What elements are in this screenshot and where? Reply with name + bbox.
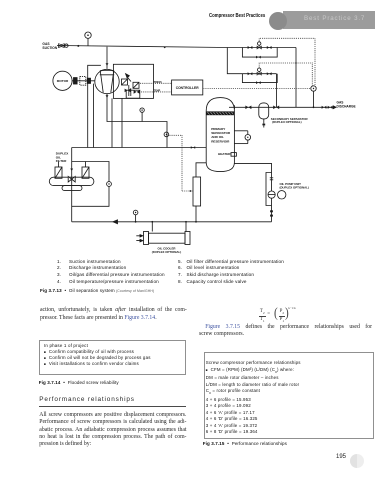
svg-text:(DUPLEX OPTIONAL): (DUPLEX OPTIONAL)	[152, 250, 181, 254]
svg-text:MOTOR: MOTOR	[57, 79, 69, 83]
svg-text:PRESS: PRESS	[154, 81, 163, 84]
svg-text:(DUPLEX OPTIONAL): (DUPLEX OPTIONAL)	[280, 186, 309, 190]
svg-text:TEMP: TEMP	[154, 90, 161, 93]
svg-text:FILTER: FILTER	[56, 159, 67, 163]
svg-text:SUCTION: SUCTION	[42, 46, 57, 50]
svg-text:DISCHARGE: DISCHARGE	[337, 105, 356, 109]
svg-text:HEATER: HEATER	[218, 152, 231, 156]
svg-text:CONTROLLER: CONTROLLER	[176, 86, 200, 90]
svg-text:RESERVOIR: RESERVOIR	[211, 139, 230, 143]
svg-text:(DUPLEX OPTIONAL): (DUPLEX OPTIONAL)	[272, 120, 301, 124]
